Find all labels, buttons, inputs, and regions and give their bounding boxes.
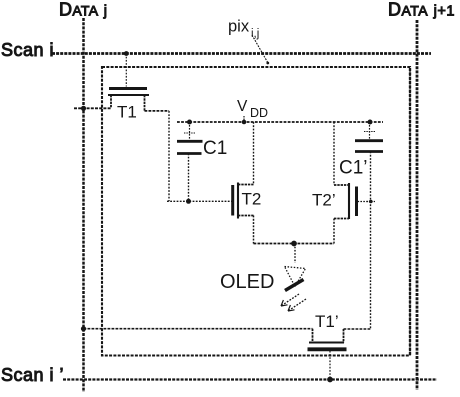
svg-text:Scan i: Scan i	[1, 40, 54, 60]
pixel boundary box pix(i,j)	[102, 67, 410, 356]
svg-text:C1’: C1’	[339, 158, 368, 179]
junction Scan i' / T1' gate	[327, 377, 333, 383]
wire C1' bottom to T1' drain (node B)	[370, 152, 372, 329]
capacitor C1	[177, 122, 227, 201]
svg-text:Scan i ’: Scan i ’	[1, 365, 64, 385]
junction Vdd / C1' top	[368, 120, 373, 125]
svg-text:pix: pix	[228, 18, 250, 36]
label Vdd	[237, 98, 268, 123]
svg-text:i,j: i,j	[251, 28, 259, 40]
OLED diode	[281, 244, 306, 312]
svg-text:DD: DD	[250, 106, 268, 120]
wire T1 source to Data j	[74, 107, 111, 109]
svg-text:T2’: T2’	[312, 191, 336, 210]
junction Data j / T1' source wire	[81, 326, 86, 331]
Vdd rail	[177, 121, 383, 123]
wire T1 drain to node A	[145, 111, 170, 201]
transistor T2'	[312, 183, 372, 219]
label pix(i,j) with leader line	[228, 18, 269, 65]
svg-text:DATA j+1: DATA j+1	[388, 0, 455, 20]
wire node A horizontal to T2 gate	[167, 200, 232, 202]
label OLED	[220, 271, 274, 293]
net label Scan i'	[1, 365, 64, 385]
wire Data j+1 vertical line	[416, 20, 419, 390]
net label Scan i	[1, 40, 54, 60]
node label Data j+1	[388, 0, 455, 20]
wire Vdd to T2 drain	[253, 122, 255, 185]
wire Scan i' horizontal line	[63, 378, 437, 380]
svg-text:V: V	[237, 98, 248, 115]
junction Vdd / label tick	[242, 120, 247, 125]
transistor T1'	[308, 312, 347, 380]
svg-text:DATA j: DATA j	[59, 0, 107, 20]
svg-text:T1’: T1’	[315, 312, 339, 331]
svg-text:T1: T1	[117, 103, 137, 122]
svg-text:T2: T2	[242, 190, 262, 209]
wire T2 source down to OLED node	[253, 216, 255, 244]
node label Data j	[59, 0, 107, 20]
wire T1' drain to node B	[344, 328, 371, 330]
wire Data j to T1' source	[84, 328, 313, 330]
junction scan i / T1 gate	[124, 51, 129, 56]
wire T2' source down to OLED node	[333, 219, 335, 244]
wire OLED node horizontal	[254, 243, 335, 245]
wire Vdd to T2' drain	[333, 122, 335, 185]
junction Vdd / C1 top	[187, 120, 192, 125]
junction node A / C1 bottom	[186, 199, 191, 204]
capacitor C1'	[339, 122, 383, 179]
svg-text:OLED: OLED	[220, 271, 274, 293]
transistor T2	[233, 183, 262, 219]
transistor T1	[108, 54, 149, 122]
wire Data j vertical line	[82, 18, 85, 392]
svg-text:C1: C1	[203, 138, 227, 159]
junction node B / T2' gate	[367, 200, 376, 204]
junction Data j / T1 source	[81, 106, 86, 111]
wire Scan i horizontal line	[52, 52, 431, 55]
junction OLED node	[291, 241, 297, 247]
